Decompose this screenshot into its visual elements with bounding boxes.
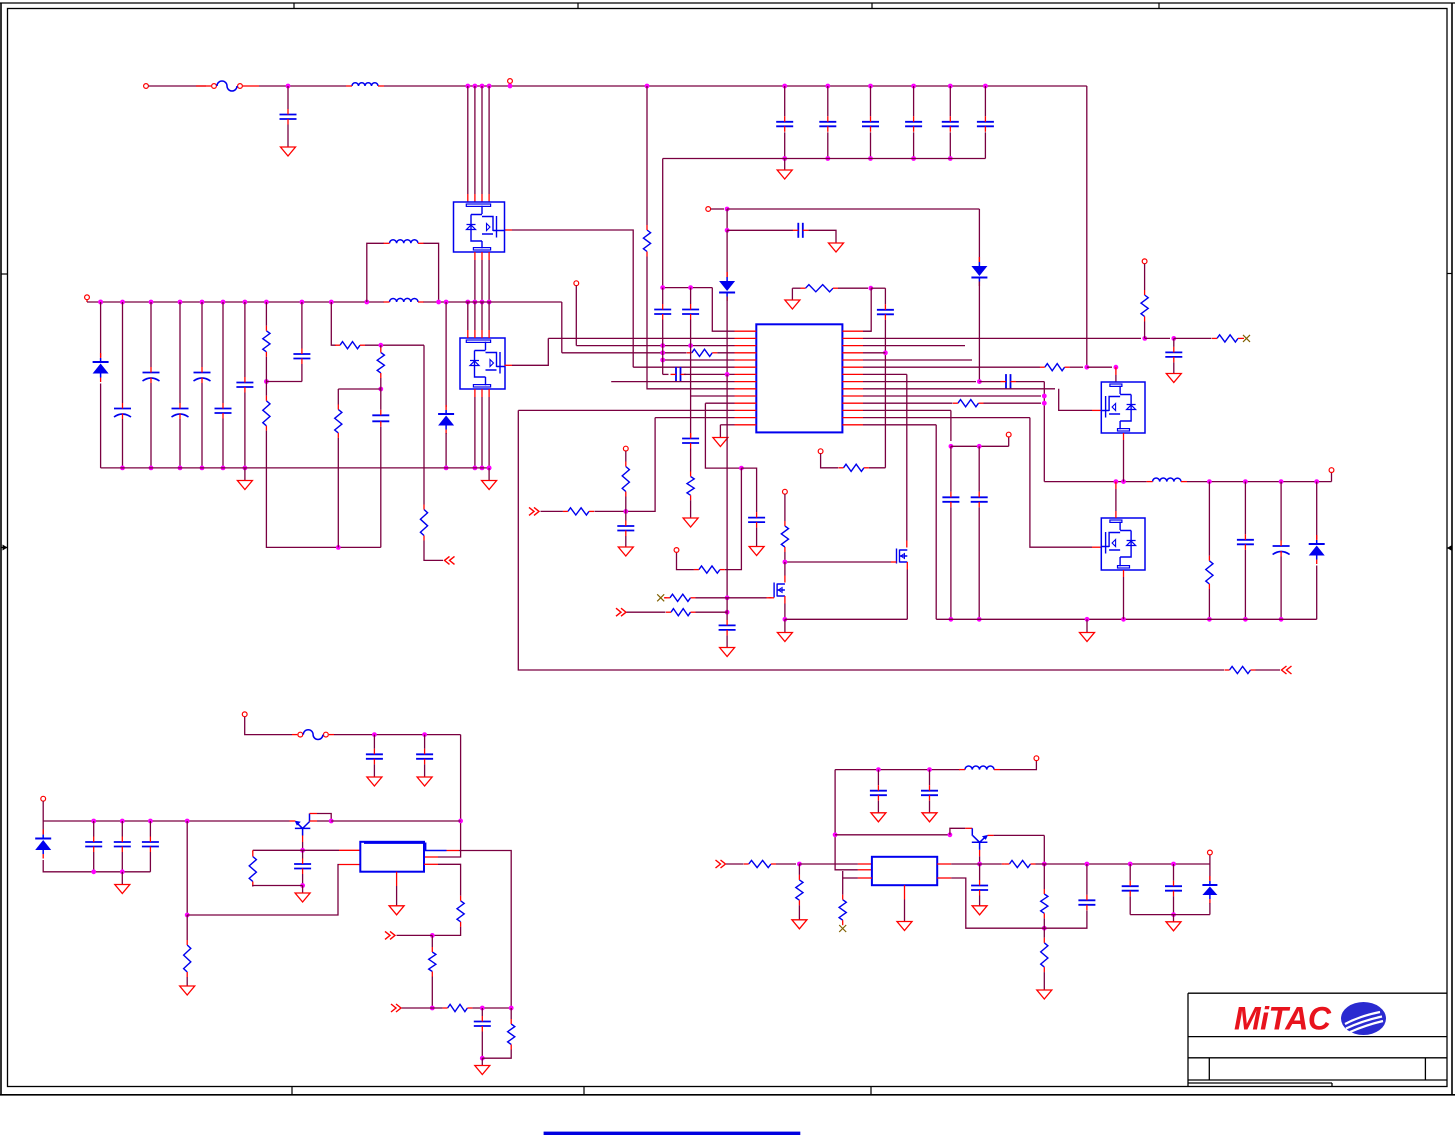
wire Q3 drain: [1115, 367, 1117, 375]
wire U1 pin23 row: [863, 388, 1055, 390]
wire: [726, 209, 728, 230]
wire: [43, 860, 150, 872]
node: [1142, 336, 1147, 341]
wire Q2 source column: [481, 389, 483, 397]
wire Q1 drain column 3: [480, 84, 485, 89]
right input rail vertical: [1086, 86, 1088, 367]
U1 left pin 13: [735, 417, 757, 419]
wire SW node riser: [1043, 382, 1045, 482]
capacitor C14: [948, 84, 953, 89]
wire: [1244, 550, 1246, 620]
node: [430, 933, 435, 938]
U1 right pin 16: [842, 337, 863, 339]
wire Q5 drain column: [906, 374, 908, 540]
resistor R31 vertical: [252, 850, 254, 852]
wire: [871, 287, 886, 289]
terminal TP2: [1142, 259, 1147, 264]
node: [1084, 365, 1089, 370]
wire: [432, 927, 460, 936]
wire to r7 node: [726, 297, 728, 375]
resistor R21: [670, 594, 691, 601]
wire U1 pin26 row: [863, 409, 951, 411]
wire: [432, 1007, 442, 1009]
node: [1279, 479, 1284, 484]
wire output row: [1044, 863, 1210, 865]
resistor R16: [699, 566, 720, 573]
ground: [972, 906, 987, 915]
capacitor C52: [979, 864, 981, 880]
resistor R18: [568, 508, 589, 515]
inductor L2 (in bus): [390, 298, 419, 302]
resistor R24 vertical: [781, 526, 788, 547]
no-connect: [657, 594, 664, 601]
inductor L4: [1153, 478, 1181, 482]
wire: [1043, 835, 1045, 864]
ground: [302, 886, 304, 894]
capacitor C8: [301, 302, 303, 349]
fuse F1: [212, 84, 217, 89]
node: [120, 819, 125, 824]
ground: [749, 547, 764, 556]
transistor Q1 body: [454, 202, 505, 252]
U1 right pin 15: [842, 330, 863, 332]
wire: [690, 500, 692, 518]
U1 left pin 11: [735, 402, 757, 404]
wire Q8 emitter: [988, 834, 994, 836]
logo globe icon: [1341, 1002, 1386, 1035]
wire top bus: [259, 85, 346, 87]
node: [949, 444, 954, 449]
ground: [281, 147, 296, 156]
transistor Q8 NPN: [972, 828, 988, 850]
node: [725, 372, 730, 377]
wire: [662, 320, 664, 346]
node: [977, 862, 982, 867]
wire U1 pin7 row capacitor: [663, 373, 669, 375]
capacitor C26 horizontal: [675, 367, 677, 382]
node: [430, 1006, 435, 1011]
wire: [402, 1007, 433, 1009]
wire U1 pin22 row: [863, 381, 976, 383]
wire: [776, 863, 796, 865]
no-connect: [839, 925, 846, 932]
capacitor C54: [1129, 864, 1131, 881]
wire U1 pin2 row (Q2 drain net): [548, 337, 734, 339]
wire: [424, 764, 426, 777]
node: [1171, 336, 1176, 341]
wire Q6 gate: [727, 597, 766, 599]
wire: [244, 393, 246, 468]
capacitor C5 polarized: [201, 302, 203, 367]
U1 right pin 17: [842, 345, 863, 347]
ground: [791, 288, 793, 300]
capacitor C44: [149, 821, 151, 837]
terminal TP8: [1008, 437, 1010, 446]
capacitor C50: [877, 770, 879, 786]
node: [797, 862, 802, 867]
border zone tick bottom 3: [870, 1087, 872, 1095]
capacitor C25: [690, 288, 692, 304]
wire: [625, 536, 627, 547]
wire: [1144, 322, 1146, 339]
capacitor C51: [929, 770, 931, 786]
wire U1 pin11 row: [705, 402, 734, 404]
wire: [646, 86, 648, 225]
inductor L3: [390, 240, 419, 244]
capacitor C42: [93, 821, 95, 837]
ground: [792, 920, 807, 929]
wire: [1174, 337, 1212, 339]
wire Q5 source: [906, 562, 908, 570]
node: [660, 350, 665, 355]
terminal J1 input: [144, 84, 149, 89]
capacitor C21: [884, 288, 886, 304]
U1 right pin 19: [842, 359, 863, 361]
node: [833, 832, 838, 837]
wire: [222, 419, 224, 468]
wire: [690, 449, 692, 472]
wire: [717, 352, 734, 354]
capacitor C27: [748, 517, 765, 519]
capacitor C6: [222, 302, 224, 403]
wire Q3 bottom pin: [1123, 433, 1125, 440]
wire: [1016, 381, 1044, 383]
title block frame: [1187, 993, 1189, 1086]
wire: [842, 878, 844, 895]
wire: [1000, 761, 1036, 770]
wire: [397, 934, 433, 936]
ground: [784, 619, 786, 632]
diode D5: [1314, 479, 1319, 484]
terminal J4: [41, 796, 46, 801]
wire: [625, 451, 627, 462]
wire: [979, 896, 981, 906]
ground: [417, 777, 432, 786]
wire: [338, 388, 381, 390]
node: [480, 1006, 485, 1011]
wire: [725, 468, 741, 569]
wire: [1087, 366, 1112, 368]
wire 690 column: [690, 346, 692, 433]
wire: [302, 874, 304, 886]
wire Q2 drain column: [480, 300, 485, 305]
wire: [877, 801, 879, 813]
capacitor C1: [287, 86, 289, 109]
node: [739, 466, 744, 471]
terminal TP3: [574, 281, 579, 286]
wire: [122, 419, 124, 468]
U1 right pin 18: [842, 352, 863, 354]
U1 left pin 10: [735, 395, 757, 397]
wire: [149, 85, 207, 87]
wire U1 pin3 row: [576, 345, 734, 347]
capacitor C23 horizontal: [1005, 374, 1007, 389]
resistor R34: [448, 1004, 468, 1011]
wire U1 pin19 row: [863, 359, 972, 361]
wire 727 column: [726, 374, 728, 597]
wire bus y=769.6: [835, 769, 960, 771]
transistor Q5 small MOSFET: [897, 549, 908, 564]
border zone tick top 2: [577, 3, 579, 9]
wire: [100, 384, 102, 468]
wire Q6 drain: [784, 562, 786, 576]
resistor R9 vertical: [643, 230, 650, 252]
node: [378, 343, 383, 348]
resistor R10: [792, 287, 800, 289]
wire R9 to IC pin9 row: [647, 257, 735, 389]
wire U1 pin28 row: [863, 424, 936, 426]
wire: [380, 378, 382, 410]
IC U2: [360, 842, 424, 872]
wire U1 pin1 riser: [863, 288, 871, 331]
wire: [253, 849, 303, 851]
wire U3 pin1-right output row: [937, 863, 951, 865]
resistor R17: [1230, 666, 1251, 673]
wire: [726, 230, 728, 277]
node Q4 source: [1121, 617, 1126, 622]
wire U1 pin1 riser top: [712, 288, 734, 332]
wire bus y=821: [42, 801, 44, 821]
U1 left pin 2: [735, 337, 757, 339]
ground: [829, 243, 844, 252]
wire Q8 base: [979, 850, 981, 856]
resistor R12 vertical: [1141, 295, 1148, 317]
wire: [186, 821, 188, 915]
IC U3: [872, 857, 937, 885]
wire U2 pin1-right (blue net): [364, 843, 447, 850]
wire: [265, 357, 267, 396]
U1 right pin 26: [842, 409, 863, 411]
node: [783, 617, 788, 622]
ground U2 tab: [396, 872, 398, 886]
wire Q5 gate row: [785, 561, 891, 563]
resistor R13: [1045, 364, 1065, 371]
wire: [719, 425, 721, 438]
wire Q2 source column: [488, 389, 490, 397]
resistor R35 vertical: [510, 1008, 512, 1019]
U1 right pin 22: [842, 381, 863, 383]
node: [1085, 862, 1090, 867]
wire Q2 drain column: [473, 300, 478, 305]
wire: [978, 507, 980, 619]
capacitor C3 polarized: [150, 302, 152, 367]
capacitor C11: [825, 84, 830, 89]
node: [1243, 479, 1248, 484]
terminal VIN2: [706, 207, 711, 212]
node: [868, 286, 873, 291]
wire: [978, 209, 980, 262]
ground: [720, 648, 735, 657]
wire U1 pin14 row: [720, 424, 734, 426]
node: [977, 379, 982, 384]
ground: [683, 518, 698, 527]
border zone tick bottom 1: [291, 1087, 293, 1095]
wire: [93, 852, 95, 872]
wire: [1070, 366, 1083, 368]
capacitor C28: [625, 511, 627, 520]
node: [91, 819, 96, 824]
wire: [784, 494, 786, 521]
node: [688, 285, 693, 290]
node: [378, 387, 383, 392]
diode D7: [1209, 864, 1211, 881]
capacitor C9: [372, 414, 389, 416]
wire U1 pin25 row: [863, 402, 953, 404]
capacitor C24: [662, 288, 664, 304]
wire coupled inductor left leg: [364, 300, 369, 305]
wire: [1043, 972, 1045, 990]
U1 left pin 6: [735, 366, 757, 368]
wire Q2 drain column: [465, 300, 470, 305]
node: [783, 560, 788, 565]
node: [725, 228, 730, 233]
diode D2: [971, 266, 987, 276]
capacitor C34 polarized: [1280, 482, 1282, 541]
capacitor C33: [1244, 482, 1246, 535]
terminal J3: [242, 712, 247, 717]
IC U1: [756, 324, 842, 432]
transistor Q7 PNP: [295, 814, 310, 836]
node: [1042, 926, 1047, 931]
wire R1/R2 node to C8: [266, 381, 302, 383]
wire: [1280, 557, 1282, 620]
transistor Q4 body: [1101, 518, 1145, 570]
wire: [741, 468, 756, 512]
wire: [1086, 864, 1088, 895]
capacitor C53: [1078, 899, 1095, 901]
transistor Q3 body: [1101, 382, 1145, 433]
resistor R20 vertical: [687, 477, 694, 496]
wire bus2 y=467.9: [101, 467, 490, 469]
wire U1 pin12 row: [518, 409, 734, 411]
wire: [726, 863, 743, 865]
wire: [1036, 863, 1045, 865]
wire: [696, 597, 728, 599]
U1 right pin 23: [842, 388, 863, 390]
wire: [690, 320, 692, 346]
wire pin28 riser to output return: [935, 425, 937, 620]
wire: [245, 717, 292, 735]
wire Q2 drain column: [487, 300, 492, 305]
wire: [726, 598, 728, 620]
node: [725, 207, 730, 212]
node Q3 drain: [1114, 365, 1119, 370]
wire U1 pin8 row: [611, 381, 734, 383]
ground: [180, 986, 195, 995]
terminal VOUT2: [1034, 756, 1039, 761]
net connector in: [1282, 666, 1292, 674]
border zone tick right: [1447, 273, 1452, 275]
net connector FB: [529, 507, 539, 515]
resistor R6 vertical: [337, 389, 339, 405]
terminal TP7: [783, 489, 788, 494]
wire U2 pin2-left feed: [187, 865, 339, 916]
wire: [253, 886, 303, 887]
wire: [1316, 566, 1318, 620]
resistor R14: [958, 400, 979, 407]
net connector FB2: [391, 1004, 401, 1012]
node: [509, 1006, 514, 1011]
resistor R33 vertical: [429, 952, 436, 972]
wire: [1129, 896, 1131, 914]
inductor L1: [352, 83, 378, 86]
revision bar blue line: [544, 1132, 801, 1135]
wire Q6 source: [784, 596, 786, 604]
wire: [726, 635, 728, 647]
border zone tick top 4: [1158, 3, 1160, 9]
wire bottom bus riser: [662, 159, 664, 288]
terminal VOUT1: [1331, 473, 1333, 482]
capacitor C12: [868, 84, 873, 89]
wire U1 pin17 row: [863, 345, 965, 347]
resistor R22: [671, 609, 691, 616]
resistor R44 vertical: [1043, 864, 1045, 889]
wire U1 pin16 row: [863, 337, 1141, 339]
ground: [367, 777, 382, 786]
wire output return rail: [936, 618, 1316, 620]
resistor R1 vertical: [265, 302, 267, 326]
ground: [1085, 617, 1090, 622]
wire: [798, 905, 800, 920]
wire top bus to right rail corner: [384, 85, 1087, 87]
wire y=287.6 link: [663, 287, 713, 289]
wire Q7 collector stub: [310, 820, 318, 822]
U1 right pin 24: [842, 395, 863, 397]
capacitor C15: [983, 84, 988, 89]
ground: [784, 159, 786, 171]
wire: [625, 497, 627, 512]
wire Q1 drain column 1: [465, 84, 470, 89]
fuse F2: [298, 732, 303, 737]
wire: [373, 764, 375, 777]
wire: [799, 863, 858, 865]
resistor R42 vertical: [839, 900, 846, 921]
U1 right pin 20: [842, 366, 863, 368]
wire bus to U2 riser: [331, 820, 460, 822]
wire: [472, 1007, 511, 1009]
wire to Q3 gate: [1059, 389, 1092, 411]
U1 right pin 21: [842, 373, 863, 375]
wire U1 pin13 row: [655, 417, 734, 419]
terminal TP1: [508, 79, 513, 84]
wire: [677, 552, 694, 569]
node: [480, 1056, 485, 1061]
ground: [481, 1058, 483, 1065]
wire: [201, 383, 203, 468]
wire: [1173, 362, 1175, 373]
ground: [1037, 990, 1052, 999]
capacitor C46: [481, 1008, 483, 1016]
U1 right pin 28: [842, 424, 863, 426]
wire Q4 bottom pin: [1123, 570, 1125, 577]
transistor Q2 body: [460, 338, 505, 389]
node: [645, 84, 650, 89]
node top bus junction: [286, 84, 291, 89]
wire U1 pin24 row: [863, 395, 1041, 397]
wire: [1208, 482, 1210, 556]
node: [1042, 401, 1047, 406]
wire Q1 drain column 2: [473, 84, 478, 89]
wire U1 pin21 row: [863, 373, 907, 375]
wire U1 pin20 row: [863, 366, 1040, 368]
wire pin-row resistor feed: [331, 302, 336, 345]
wire: [1208, 589, 1210, 619]
resistor R32 vertical: [457, 901, 464, 922]
terminal TP5: [623, 446, 628, 451]
node: [336, 545, 341, 550]
wire rail left segment: [785, 618, 907, 620]
U1 right pin 25: [842, 402, 863, 404]
